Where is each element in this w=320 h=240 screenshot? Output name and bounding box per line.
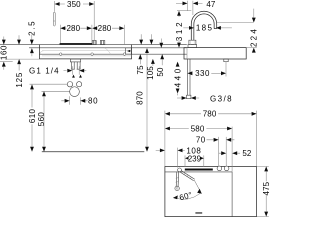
svg-text:52: 52	[242, 149, 252, 158]
svg-text:239: 239	[188, 154, 202, 163]
side view body	[184, 48, 246, 59]
label 60 deg	[178, 190, 193, 202]
svg-text:75: 75	[136, 65, 145, 75]
plan handle circle 1	[217, 166, 222, 171]
dim 475	[257, 166, 272, 216]
label G3/8 with arrows	[177, 94, 233, 103]
pipe fitting G3/8	[187, 95, 191, 99]
dim 105	[146, 34, 155, 80]
svg-text:870: 870	[136, 91, 145, 105]
dim 780	[165, 110, 257, 167]
drain logo mark	[195, 212, 202, 214]
svg-text:105: 105	[146, 66, 155, 80]
dim 280 left	[60, 24, 92, 43]
ext line spout top	[177, 10, 191, 12]
svg-text:280: 280	[66, 24, 80, 33]
dim 52	[219, 149, 252, 158]
rim baseline	[42, 151, 145, 153]
dim 280 right	[92, 24, 124, 44]
svg-text:610: 610	[28, 109, 37, 124]
svg-text:475: 475	[262, 181, 271, 195]
svg-text:G3/8: G3/8	[210, 94, 233, 103]
plan view tub rect	[165, 166, 257, 216]
svg-text:440: 440	[174, 66, 183, 87]
ext line body top right	[246, 47, 257, 49]
face circle 1	[59, 53, 62, 56]
svg-text:780: 780	[203, 110, 217, 119]
dim 2.5	[28, 20, 37, 57]
ext line body bottom left	[5, 58, 40, 60]
hose big circle	[70, 87, 80, 97]
plan inner wall line	[231, 127, 233, 217]
ext line spout outlet	[217, 22, 253, 24]
supply pipe	[187, 59, 190, 95]
plan spout arm swung	[180, 171, 202, 194]
inlet flange	[70, 59, 80, 62]
dim 185	[183, 24, 232, 33]
dim 350	[54, 0, 94, 40]
waterfall slot	[60, 43, 92, 45]
svg-text:560: 560	[37, 112, 46, 127]
svg-text:50: 50	[156, 67, 165, 77]
svg-text:G1 1/4: G1 1/4	[29, 66, 60, 75]
spout arc	[191, 11, 216, 40]
plan spout pivot	[178, 168, 182, 172]
inlet stub 1	[71, 62, 75, 69]
faucet body front view	[40, 45, 132, 59]
dim 610	[28, 84, 37, 151]
svg-text:330: 330	[195, 69, 210, 78]
ext line big circle	[42, 90, 70, 92]
dim 224	[250, 9, 259, 53]
face circle 3	[123, 53, 126, 56]
ext line small circles	[30, 83, 68, 85]
pin above deck	[54, 12, 56, 26]
dim 80	[61, 96, 98, 105]
dim 50	[156, 39, 165, 77]
plan spout arm down	[176, 172, 179, 186]
deck line L2	[29, 47, 187, 49]
dim 75	[136, 34, 145, 74]
dim 70	[196, 135, 235, 166]
end cap button	[126, 48, 132, 54]
port 2 on body top	[100, 41, 105, 45]
outlet tab below body	[224, 59, 228, 77]
ref line 160 bottom	[0, 61, 13, 63]
spout plinth	[188, 40, 197, 47]
dim 870	[136, 48, 149, 152]
plan handle circle 2	[224, 166, 229, 171]
plan spout outlet	[175, 186, 179, 190]
svg-text:580: 580	[191, 124, 205, 133]
svg-text:80: 80	[88, 97, 99, 106]
face circle 2	[91, 53, 94, 56]
plan faucet bar	[185, 169, 213, 171]
deck line L3	[40, 53, 187, 55]
dim 239	[185, 154, 204, 166]
svg-text:2.5: 2.5	[28, 20, 37, 36]
dim G1 arrows	[64, 66, 87, 77]
svg-text:350: 350	[67, 0, 81, 9]
inlet stub 2	[77, 62, 81, 69]
hose small circle 2	[77, 82, 82, 87]
dim 312	[175, 11, 184, 48]
hose small circle 1	[67, 82, 72, 87]
port 1 on body top	[92, 41, 96, 45]
label G1 1/4	[29, 66, 60, 75]
dim 108	[156, 146, 202, 167]
inner curve detail	[105, 48, 111, 54]
svg-text:160: 160	[0, 45, 9, 60]
deck top line L1	[0, 44, 187, 46]
dim 160	[0, 37, 9, 70]
svg-text:280: 280	[98, 24, 112, 33]
plan deck bottom edge	[165, 171, 232, 173]
svg-text:224: 224	[250, 27, 259, 47]
dim 330	[187, 69, 226, 78]
svg-text:47: 47	[206, 0, 216, 9]
dim 47	[176, 0, 216, 15]
svg-text:185: 185	[196, 24, 214, 33]
swivel arc 60 deg	[173, 193, 201, 199]
svg-text:125: 125	[15, 72, 24, 88]
dim 580	[165, 124, 232, 133]
dim 560	[37, 91, 46, 152]
dim 440	[174, 62, 183, 96]
svg-text:70: 70	[196, 135, 206, 144]
svg-text:312: 312	[175, 20, 184, 41]
dim 125	[15, 35, 24, 87]
